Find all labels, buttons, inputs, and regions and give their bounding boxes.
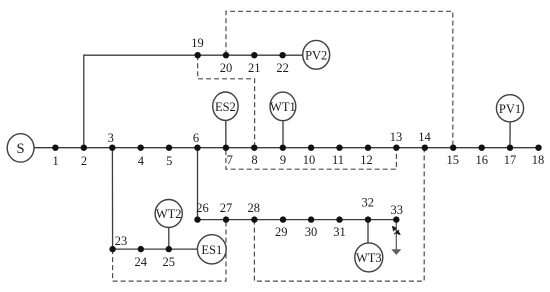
svg-text:WT2: WT2 bbox=[156, 207, 182, 221]
svg-text:13: 13 bbox=[390, 130, 403, 144]
svg-text:2: 2 bbox=[81, 154, 87, 168]
svg-text:S: S bbox=[17, 141, 25, 157]
svg-text:29: 29 bbox=[275, 225, 288, 239]
svg-text:33: 33 bbox=[391, 203, 404, 217]
svg-text:22: 22 bbox=[276, 61, 289, 75]
svg-text:PV1: PV1 bbox=[499, 102, 521, 116]
svg-text:12: 12 bbox=[360, 153, 373, 167]
svg-text:17: 17 bbox=[504, 153, 517, 167]
svg-text:32: 32 bbox=[361, 195, 374, 209]
svg-text:8: 8 bbox=[251, 153, 257, 167]
svg-text:15: 15 bbox=[447, 153, 460, 167]
svg-text:18: 18 bbox=[532, 153, 545, 167]
svg-text:6: 6 bbox=[193, 131, 199, 145]
svg-text:21: 21 bbox=[248, 61, 261, 75]
svg-text:PV2: PV2 bbox=[305, 48, 327, 62]
svg-text:31: 31 bbox=[333, 225, 346, 239]
svg-text:28: 28 bbox=[248, 201, 261, 215]
svg-text:19: 19 bbox=[191, 36, 204, 50]
svg-text:25: 25 bbox=[163, 255, 176, 269]
svg-text:23: 23 bbox=[115, 234, 128, 248]
svg-text:10: 10 bbox=[303, 153, 316, 167]
svg-text:30: 30 bbox=[305, 225, 318, 239]
svg-text:27: 27 bbox=[220, 201, 233, 215]
svg-text:4: 4 bbox=[138, 154, 145, 168]
svg-text:16: 16 bbox=[475, 153, 488, 167]
svg-text:7: 7 bbox=[227, 153, 233, 167]
svg-text:ES2: ES2 bbox=[215, 100, 236, 114]
svg-text:14: 14 bbox=[418, 130, 431, 144]
svg-text:26: 26 bbox=[196, 201, 209, 215]
svg-text:WT1: WT1 bbox=[270, 100, 296, 114]
svg-text:3: 3 bbox=[108, 131, 114, 145]
svg-text:24: 24 bbox=[135, 255, 148, 269]
svg-text:11: 11 bbox=[332, 153, 344, 167]
svg-text:20: 20 bbox=[220, 61, 233, 75]
svg-text:WT3: WT3 bbox=[356, 251, 382, 265]
svg-text:5: 5 bbox=[166, 154, 172, 168]
svg-text:9: 9 bbox=[280, 153, 286, 167]
svg-text:ES1: ES1 bbox=[201, 243, 222, 257]
svg-text:1: 1 bbox=[52, 154, 58, 168]
